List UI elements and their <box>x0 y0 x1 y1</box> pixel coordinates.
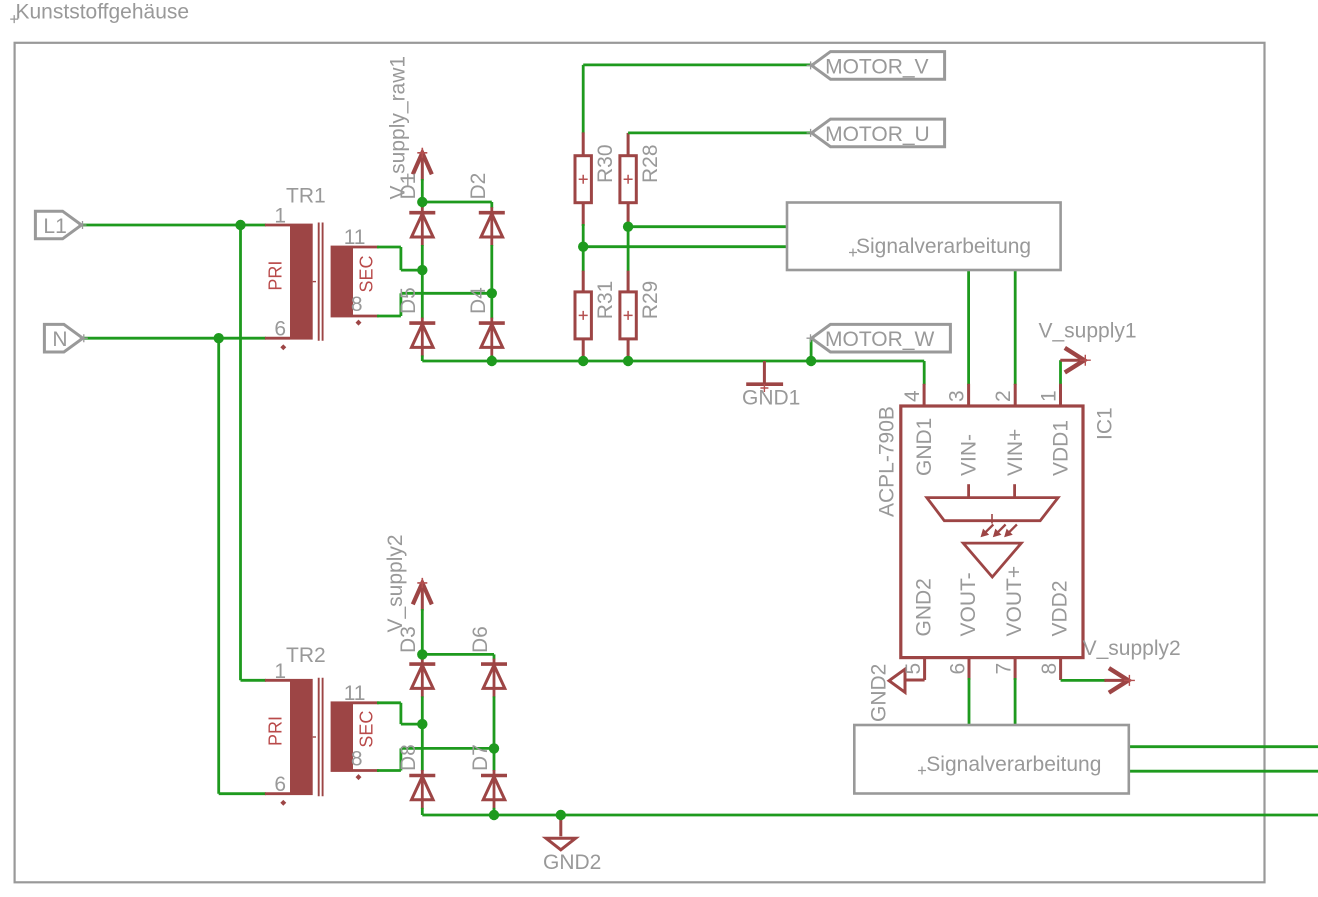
svg-text:VDD2: VDD2 <box>1049 580 1072 636</box>
svg-text:D7: D7 <box>469 744 492 771</box>
svg-text:TR1: TR1 <box>286 185 326 208</box>
svg-text:8: 8 <box>1038 663 1061 675</box>
svg-text:11: 11 <box>344 226 366 249</box>
svg-text:1: 1 <box>274 660 286 683</box>
svg-text:Signalverarbeitung: Signalverarbeitung <box>856 235 1031 258</box>
svg-text:6: 6 <box>274 773 286 796</box>
svg-text:MOTOR_V: MOTOR_V <box>825 55 928 78</box>
svg-text:D4: D4 <box>467 287 490 314</box>
svg-text:GND1: GND1 <box>742 387 800 410</box>
svg-text:N: N <box>52 328 67 351</box>
svg-text:R31: R31 <box>594 281 617 320</box>
svg-text:VDD1: VDD1 <box>1050 420 1073 476</box>
svg-text:L1: L1 <box>43 215 66 238</box>
svg-text:D6: D6 <box>469 626 492 653</box>
svg-text:PRI: PRI <box>266 716 286 746</box>
svg-text:IC1: IC1 <box>1094 407 1117 440</box>
svg-text:ACPL-790B: ACPL-790B <box>876 406 899 517</box>
svg-text:R28: R28 <box>639 144 662 183</box>
svg-text:6: 6 <box>947 663 970 675</box>
svg-text:11: 11 <box>344 682 366 705</box>
svg-text:TR2: TR2 <box>286 644 326 667</box>
svg-text:PRI: PRI <box>266 261 286 291</box>
svg-text:VIN-: VIN- <box>958 434 981 476</box>
svg-text:V_supply2: V_supply2 <box>1083 637 1181 660</box>
svg-text:4: 4 <box>901 390 924 402</box>
svg-text:D8: D8 <box>397 744 420 771</box>
svg-text:D5: D5 <box>397 287 420 314</box>
svg-text:GND2: GND2 <box>543 851 601 874</box>
svg-text:MOTOR_U: MOTOR_U <box>825 123 930 146</box>
svg-text:SEC: SEC <box>357 255 377 292</box>
svg-text:D1: D1 <box>397 173 420 200</box>
svg-text:1: 1 <box>274 205 286 228</box>
svg-text:MOTOR_W: MOTOR_W <box>825 328 934 351</box>
svg-text:6: 6 <box>274 318 286 341</box>
svg-text:7: 7 <box>993 663 1016 675</box>
svg-text:R29: R29 <box>639 281 662 320</box>
svg-text:D3: D3 <box>397 626 420 653</box>
svg-text:3: 3 <box>946 390 969 402</box>
svg-text:5: 5 <box>902 663 925 675</box>
svg-text:VOUT-: VOUT- <box>957 572 980 636</box>
svg-text:Kunststoffgehäuse: Kunststoffgehäuse <box>16 1 190 24</box>
svg-text:8: 8 <box>351 748 363 771</box>
svg-text:GND2: GND2 <box>913 578 936 636</box>
svg-text:8: 8 <box>351 293 363 316</box>
svg-text:R30: R30 <box>594 144 617 183</box>
svg-text:D2: D2 <box>467 173 490 200</box>
svg-text:GND1: GND1 <box>913 418 936 476</box>
svg-text:2: 2 <box>992 390 1015 402</box>
svg-text:VIN+: VIN+ <box>1004 429 1027 476</box>
svg-text:V_supply2: V_supply2 <box>384 534 407 632</box>
svg-text:GND2: GND2 <box>868 664 891 722</box>
svg-text:V_supply1: V_supply1 <box>1039 320 1137 343</box>
svg-text:1: 1 <box>1038 390 1061 402</box>
svg-text:VOUT+: VOUT+ <box>1003 566 1026 637</box>
svg-text:SEC: SEC <box>357 711 377 748</box>
svg-text:Signalverarbeitung: Signalverarbeitung <box>926 753 1101 776</box>
